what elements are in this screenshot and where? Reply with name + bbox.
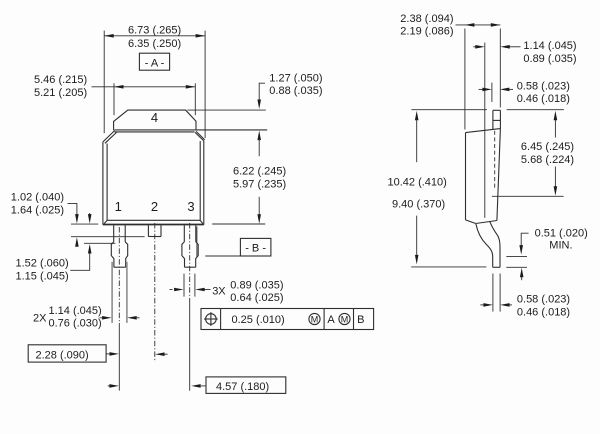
dimension 10.42/9.40 overall height bbox=[411, 109, 487, 111]
svg-text:0.25 (.010): 0.25 (.010) bbox=[232, 314, 285, 326]
hidden tab edge bbox=[494, 131, 496, 191]
svg-text:6.22 (.245): 6.22 (.245) bbox=[233, 166, 286, 178]
side lead bend bbox=[476, 224, 493, 267]
datum A box bbox=[139, 53, 169, 70]
svg-text:2.28 (.090): 2.28 (.090) bbox=[36, 349, 89, 361]
pin 3 width extension lines bbox=[183, 274, 185, 297]
svg-text:0.88 (.035): 0.88 (.035) bbox=[269, 85, 322, 97]
svg-text:4: 4 bbox=[151, 110, 158, 125]
pin 3 right edge extension bbox=[196, 227, 198, 258]
dimension 6.22/5.97 body height bbox=[257, 131, 261, 141]
internal lead frame line bbox=[484, 43, 486, 218]
pin 1 centerline bbox=[118, 227, 120, 323]
pin 2 centerline bbox=[154, 223, 156, 361]
svg-text:1.15 (.045): 1.15 (.045) bbox=[16, 270, 69, 282]
svg-text:0.89 (.035): 0.89 (.035) bbox=[523, 53, 576, 65]
boxed dimension 4.57 bbox=[206, 377, 286, 394]
svg-text:1.64 (.025): 1.64 (.025) bbox=[11, 205, 64, 217]
svg-text:5.46 (.215): 5.46 (.215) bbox=[34, 74, 87, 86]
svg-text:5.21 (.205): 5.21 (.205) bbox=[34, 87, 87, 99]
body outline outer bbox=[103, 131, 115, 142]
svg-text:M: M bbox=[311, 314, 319, 324]
M circle 1 bbox=[309, 313, 320, 324]
svg-text:2X: 2X bbox=[33, 313, 47, 325]
svg-text:5.68 (.224): 5.68 (.224) bbox=[521, 154, 574, 166]
svg-text:6.35 (.250): 6.35 (.250) bbox=[128, 38, 181, 50]
svg-text:MIN.: MIN. bbox=[549, 240, 572, 252]
svg-text:3X: 3X bbox=[212, 285, 226, 297]
svg-text:0.51 (.020): 0.51 (.020) bbox=[535, 227, 588, 239]
pin 3 centerline bbox=[189, 223, 191, 300]
svg-text:0.46 (.018): 0.46 (.018) bbox=[517, 307, 570, 319]
pin 3 lead bbox=[183, 225, 185, 242]
svg-text:- A -: - A - bbox=[145, 57, 165, 69]
svg-text:B: B bbox=[357, 314, 364, 326]
tab (pin 4) outline bbox=[114, 110, 196, 130]
svg-text:2.19 (.086): 2.19 (.086) bbox=[400, 25, 453, 37]
svg-text:0.46 (.018): 0.46 (.018) bbox=[517, 93, 570, 105]
side tab bbox=[493, 109, 501, 111]
pin 1 solder plated sides (grey) bbox=[111, 262, 113, 323]
svg-text:3: 3 bbox=[187, 199, 194, 214]
svg-text:0.76 (.030): 0.76 (.030) bbox=[49, 317, 102, 329]
boxed dimension 2.28 bbox=[28, 345, 106, 362]
svg-text:1.02 (.040): 1.02 (.040) bbox=[11, 192, 64, 204]
svg-text:5.97 (.235): 5.97 (.235) bbox=[233, 179, 286, 191]
svg-text:0.89 (.035): 0.89 (.035) bbox=[230, 279, 283, 291]
svg-text:0.58 (.023): 0.58 (.023) bbox=[517, 81, 570, 93]
datum B box with leader bbox=[240, 238, 271, 256]
position symbol bbox=[206, 314, 217, 325]
svg-text:1.14 (.045): 1.14 (.045) bbox=[49, 305, 102, 317]
svg-text:M: M bbox=[341, 314, 349, 324]
svg-text:1.52 (.060): 1.52 (.060) bbox=[16, 258, 69, 270]
svg-text:1.27 (.050): 1.27 (.050) bbox=[269, 72, 322, 84]
feature control frame bbox=[201, 309, 374, 330]
dimension 6.45/5.68 tab height bbox=[507, 109, 564, 111]
svg-text:2: 2 bbox=[151, 199, 158, 214]
svg-text:2.38 (.094): 2.38 (.094) bbox=[400, 13, 453, 25]
side body bbox=[466, 129, 501, 133]
svg-text:10.42 (.410): 10.42 (.410) bbox=[388, 177, 447, 189]
svg-text:6.45 (.245): 6.45 (.245) bbox=[521, 141, 574, 153]
dimension 0.58/0.46 lead thickness bottom bbox=[492, 274, 494, 312]
M circle 2 bbox=[339, 313, 350, 324]
svg-text:0.64 (.025): 0.64 (.025) bbox=[230, 292, 283, 304]
svg-text:4.57 (.180): 4.57 (.180) bbox=[216, 381, 269, 393]
svg-text:- B -: - B - bbox=[245, 243, 266, 255]
svg-text:9.40 (.370): 9.40 (.370) bbox=[392, 199, 445, 211]
svg-text:0.58 (.023): 0.58 (.023) bbox=[517, 294, 570, 306]
svg-text:6.73 (.265): 6.73 (.265) bbox=[128, 25, 181, 37]
svg-text:A: A bbox=[327, 314, 335, 326]
tab bottom / body top double line bbox=[115, 129, 268, 131]
svg-text:1: 1 bbox=[115, 199, 122, 214]
svg-text:1.14 (.045): 1.14 (.045) bbox=[523, 40, 576, 52]
pin 2 stub bbox=[147, 225, 149, 236]
body bottom edge bbox=[103, 224, 204, 226]
pin 1 lead bbox=[113, 225, 115, 242]
